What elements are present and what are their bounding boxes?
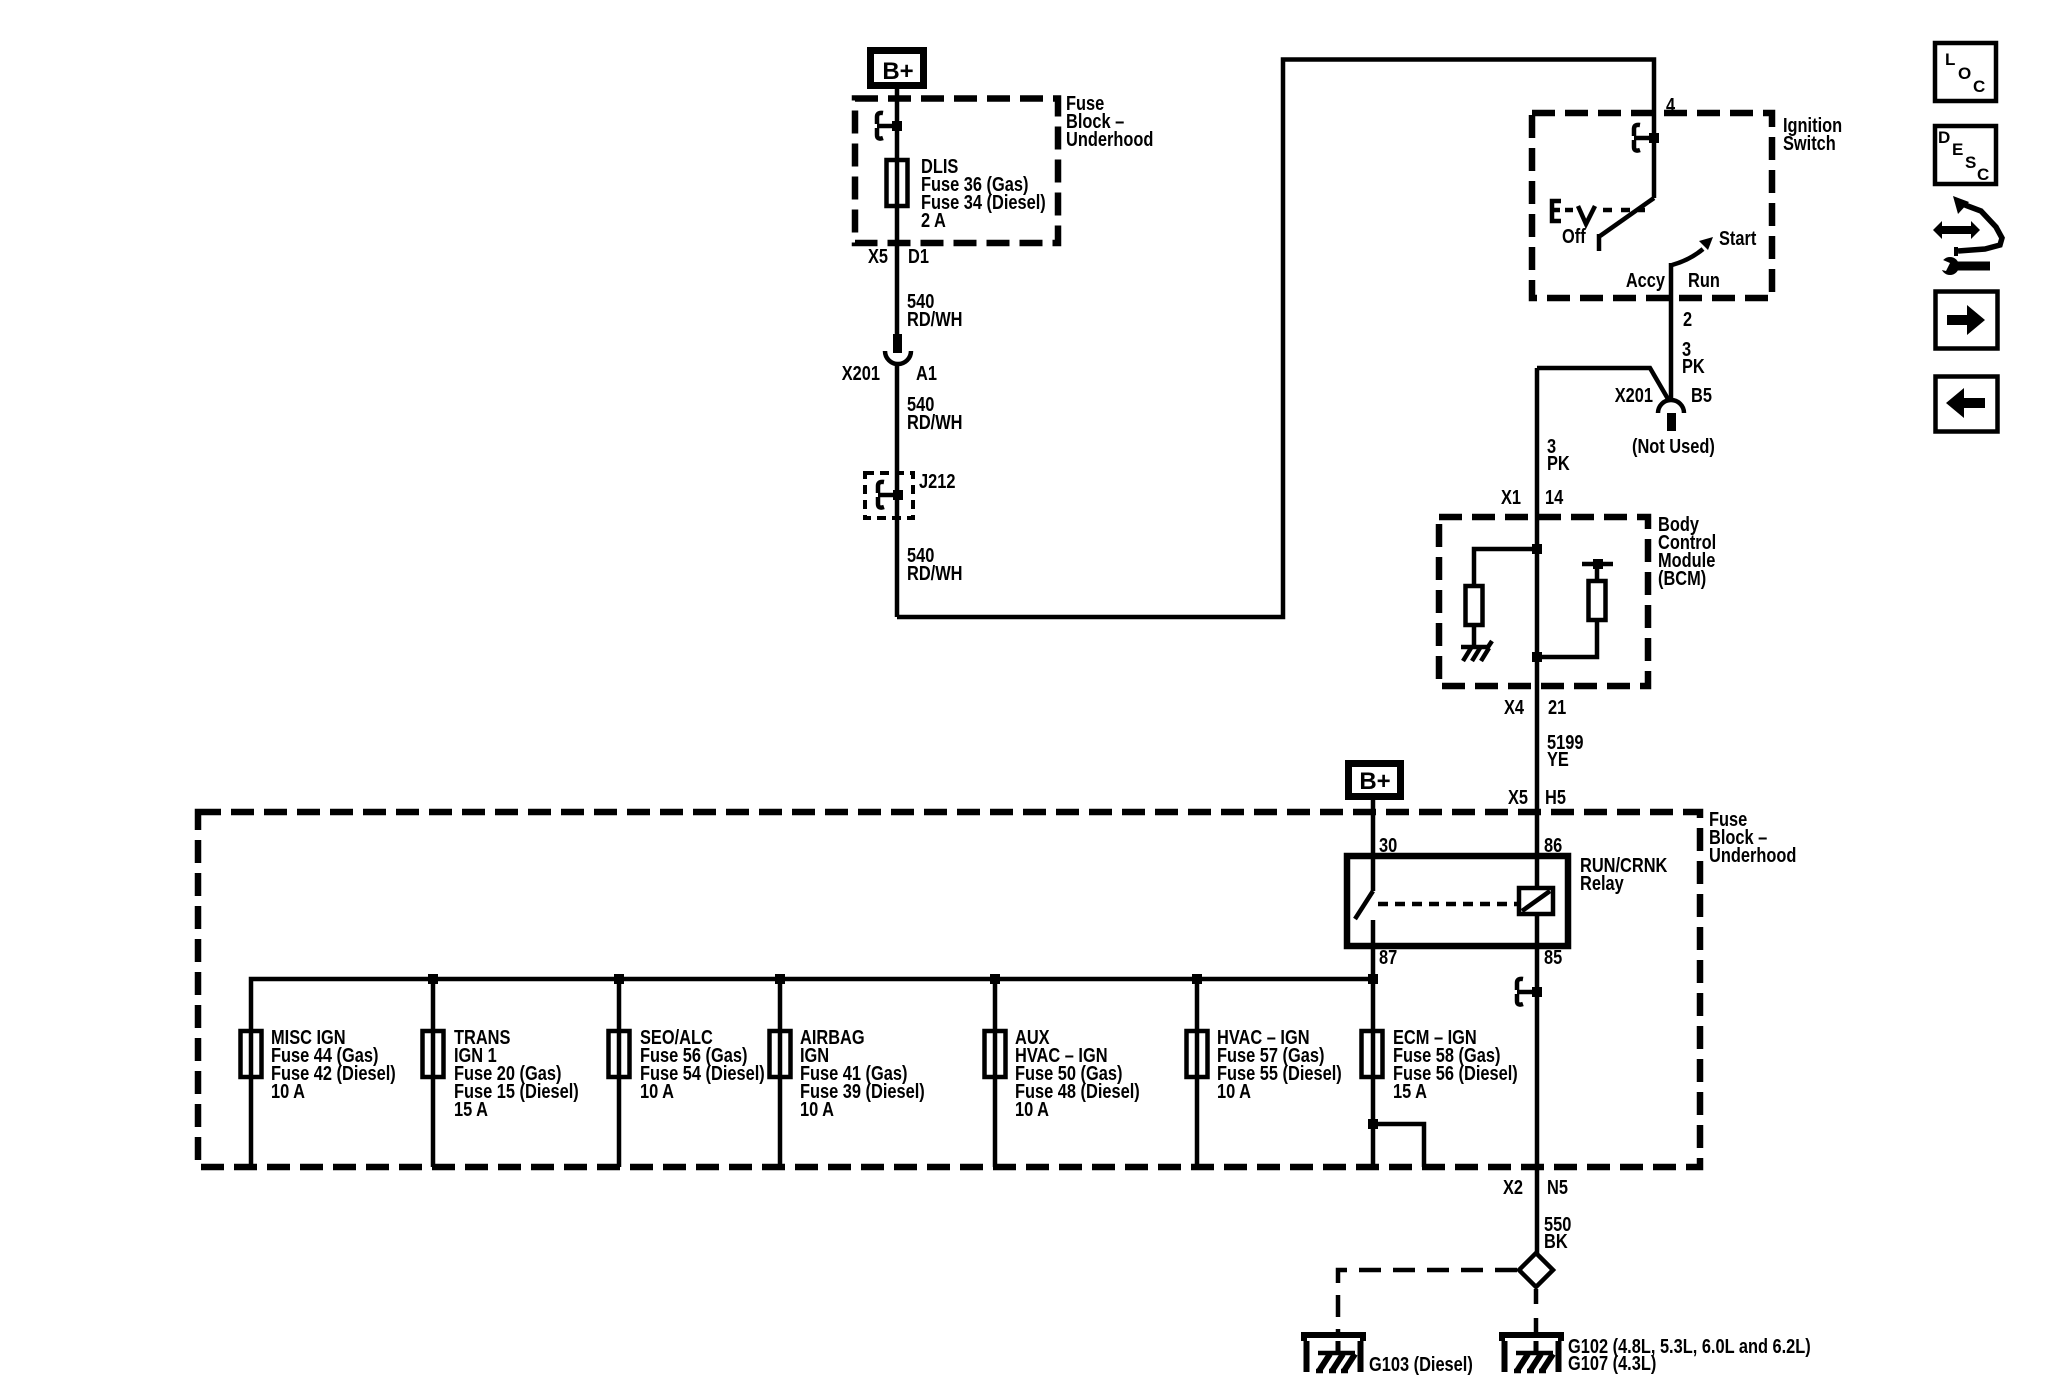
- connector X201 A1: female cup: [885, 351, 911, 364]
- svg-text:RD/WH: RD/WH: [907, 561, 962, 584]
- dashed wire: splice to G103 (diesel): [1338, 1270, 1517, 1334]
- junction at hook / wire: [892, 121, 902, 131]
- wire: branch AIRBAG: [778, 979, 783, 1167]
- junction at ignition hook: [1649, 133, 1659, 143]
- fuse block underhood box 2 (dashed): [198, 812, 1700, 1167]
- svg-text:10 A: 10 A: [800, 1097, 834, 1120]
- fuse HVAC-IGN: [1187, 1031, 1208, 1077]
- junction at ECM loop: [1368, 1119, 1378, 1129]
- svg-text:86: 86: [1544, 833, 1562, 856]
- svg-text:10 A: 10 A: [271, 1079, 305, 1102]
- svg-text:14: 14: [1545, 485, 1564, 508]
- wire: Run contact down to connector X201 B5: [1669, 263, 1674, 401]
- wire: branch SEO/ALC: [617, 979, 622, 1167]
- svg-text:Off: Off: [1562, 224, 1586, 247]
- svg-text:E: E: [1952, 140, 1963, 159]
- fuse AUX HVAC-IGN: [985, 1031, 1006, 1077]
- svg-text:(Not Used): (Not Used): [1632, 434, 1715, 457]
- label: SEO/ALC fuse: [640, 1025, 765, 1102]
- junction dot BCM lower: [1532, 652, 1542, 662]
- svg-text:G103 (Diesel): G103 (Diesel): [1369, 1352, 1473, 1375]
- icon box LOC: [1935, 43, 1996, 101]
- wire label 3 PK (right): [1682, 337, 1705, 377]
- wire: A1 down through J212 to corner: [895, 364, 900, 617]
- svg-text:Relay: Relay: [1580, 871, 1624, 894]
- relay coil box with slash: [1519, 888, 1553, 914]
- junction at J212: [893, 490, 903, 500]
- svg-text:2 A: 2 A: [921, 208, 946, 231]
- svg-text:BK: BK: [1544, 1229, 1568, 1252]
- svg-text:2: 2: [1683, 307, 1692, 330]
- label: AUX HVAC-IGN fuse: [1015, 1025, 1140, 1120]
- wire label 550 BK: [1544, 1212, 1571, 1252]
- fuse ECM-IGN: [1362, 1031, 1383, 1077]
- svg-text:PK: PK: [1547, 451, 1570, 474]
- ignition switch dashed box: [1532, 113, 1772, 298]
- fuse AIRBAG IGN: [770, 1031, 791, 1077]
- internal supply T-bar: [1582, 559, 1613, 581]
- svg-text:L: L: [1945, 50, 1955, 69]
- label: MISC IGN fuse: [271, 1025, 396, 1102]
- wire: BCM internal branch to sensing resistor: [1537, 620, 1597, 657]
- ignition bus (fuse feeds): [251, 979, 1373, 1167]
- svg-text:X1: X1: [1501, 485, 1521, 508]
- svg-text:21: 21: [1548, 695, 1566, 718]
- wire: long loop from corner up and over to ignition switch pin 4: [897, 60, 1654, 618]
- icon box arrow left: [1936, 377, 1998, 432]
- svg-text:87: 87: [1379, 945, 1397, 968]
- key link dash 1: [1565, 208, 1573, 213]
- svg-text:G107 (4.3L): G107 (4.3L): [1568, 1351, 1656, 1374]
- svg-text:30: 30: [1379, 833, 1397, 856]
- wire: B+ to DLIS fuse and down to connector X201 A1: [895, 89, 900, 336]
- wire: BCM internal branch to pull-down resistor: [1474, 549, 1537, 586]
- ignition switch movable blade (Off position): [1599, 198, 1654, 251]
- resistor (BCM sense): [1589, 581, 1606, 620]
- svg-text:RD/WH: RD/WH: [907, 410, 962, 433]
- bus tap hook at ignition pin 4: [1634, 125, 1654, 151]
- key link dashes to blade: [1603, 208, 1645, 213]
- wire: 3 PK down to BCM X1-14 and on to relay 86: [1535, 368, 1540, 888]
- fuse MISC IGN: [241, 1031, 262, 1077]
- junction dot BCM upper: [1532, 544, 1542, 554]
- svg-text:J212: J212: [919, 469, 955, 492]
- wire label 3 PK (left): [1547, 434, 1570, 474]
- label: Fuse Block - Underhood (lower right): [1709, 807, 1796, 866]
- svg-text:X201: X201: [1615, 383, 1653, 406]
- svg-text:Underhood: Underhood: [1709, 843, 1796, 866]
- svg-text:C: C: [1973, 77, 1985, 96]
- bus tap hook inside fuse block 1: [877, 113, 897, 139]
- svg-text:RD/WH: RD/WH: [907, 307, 962, 330]
- relay switch blade (pin 30 to 87, open): [1355, 891, 1373, 946]
- icon box DESC: [1935, 126, 1996, 184]
- svg-text:S: S: [1965, 153, 1976, 172]
- svg-text:10 A: 10 A: [640, 1079, 674, 1102]
- wire: branch HVAC: [1195, 979, 1200, 1167]
- svg-text:H5: H5: [1545, 785, 1566, 808]
- fuse block underhood box 1 (dashed): [855, 99, 1058, 244]
- splice J212 hook: [878, 482, 898, 508]
- svg-text:X2: X2: [1503, 1175, 1523, 1198]
- battery feed B+ symbol (top): [871, 51, 924, 86]
- svg-text:PK: PK: [1682, 354, 1705, 377]
- splice J212 dashed box: [865, 473, 913, 518]
- relay actuating dashed link: [1378, 902, 1517, 907]
- ignition key symbol E: [1552, 201, 1561, 221]
- wire: resistor to internal ground: [1472, 625, 1477, 647]
- ground G103 symbol: [1304, 1335, 1363, 1372]
- svg-text:X5: X5: [868, 244, 888, 267]
- svg-text:A1: A1: [916, 361, 937, 384]
- svg-text:C: C: [1977, 165, 1989, 184]
- dashed wire: splice to G102/G107: [1534, 1289, 1539, 1334]
- label: ECM-IGN fuse: [1393, 1025, 1518, 1102]
- label: AIRBAG IGN fuse: [800, 1025, 925, 1120]
- svg-text:D: D: [1938, 128, 1950, 147]
- label: Ignition Switch: [1783, 113, 1842, 154]
- connector X201 A1: male pin: [893, 334, 902, 353]
- body control module dashed box: [1439, 517, 1648, 686]
- svg-text:Underhood: Underhood: [1066, 127, 1153, 150]
- icon: adjust arrows and wrench: [1933, 196, 2002, 275]
- junction at relay 85 hook: [1532, 987, 1542, 997]
- svg-text:B+: B+: [882, 58, 913, 85]
- svg-text:X5: X5: [1508, 785, 1528, 808]
- fuse DLIS Fuse 36 (Gas) Fuse 34 (Diesel) 2 A: [887, 160, 908, 206]
- svg-text:YE: YE: [1547, 747, 1569, 770]
- svg-text:X4: X4: [1504, 695, 1525, 718]
- svg-text:Run: Run: [1688, 268, 1720, 291]
- label: Body Control Module (BCM): [1658, 512, 1716, 589]
- svg-text:N5: N5: [1547, 1175, 1568, 1198]
- key arrow V: [1578, 206, 1595, 224]
- svg-text:X201: X201: [842, 361, 880, 384]
- fuse SEO/ALC: [609, 1031, 630, 1077]
- wire: ECM fuse output with loop to X2: [1373, 1124, 1424, 1167]
- svg-text:Switch: Switch: [1783, 131, 1836, 154]
- svg-text:D1: D1: [908, 244, 929, 267]
- svg-text:15 A: 15 A: [1393, 1079, 1427, 1102]
- svg-text:Accy: Accy: [1626, 268, 1666, 291]
- label: TRANS IGN 1 fuse: [454, 1025, 579, 1120]
- wire: relay 87 output down to ECM fuse: [1371, 946, 1376, 1167]
- label: Fuse Block - Underhood (top): [1066, 91, 1153, 150]
- connector X201 B5: female cup (not used): [1658, 400, 1684, 413]
- bus tap hook below relay 85: [1517, 979, 1537, 1005]
- wire label 540 RD/WH (2): [907, 392, 962, 433]
- svg-text:15 A: 15 A: [454, 1097, 488, 1120]
- svg-text:B+: B+: [1359, 768, 1390, 795]
- relay RUN/CRNK box: [1347, 856, 1568, 946]
- svg-text:B5: B5: [1691, 383, 1712, 406]
- wire: B+ to relay pin 30: [1371, 800, 1376, 891]
- wire: BCM feed horizontal with diagonal into X201 B5: [1537, 368, 1668, 399]
- wire: branch AUX: [993, 979, 998, 1167]
- start position curved arrow: [1672, 237, 1713, 265]
- junction dots on bus: [428, 974, 1378, 984]
- svg-text:10 A: 10 A: [1217, 1079, 1251, 1102]
- wire label 540 RD/WH (3): [907, 543, 962, 584]
- label: DLIS fuse text: [921, 154, 1046, 231]
- wire: branch TRANS: [431, 979, 436, 1167]
- connector X201 B5: male pin: [1667, 413, 1676, 431]
- ground G102/G107 symbol: [1502, 1335, 1561, 1372]
- wire: relay 85 down through X2 N5 to splice: [1535, 914, 1540, 1253]
- svg-text:(BCM): (BCM): [1658, 566, 1706, 589]
- splice diamond S-point: [1519, 1253, 1553, 1287]
- svg-text:10 A: 10 A: [1015, 1097, 1049, 1120]
- battery feed B+ symbol (relay 30): [1349, 764, 1401, 797]
- label: RUN/CRNK Relay: [1580, 853, 1668, 894]
- label: HVAC-IGN fuse: [1217, 1025, 1342, 1102]
- wire label 540 RD/WH (1): [907, 289, 962, 330]
- icon box arrow right: [1936, 292, 1998, 349]
- wire label 5199 YE: [1547, 730, 1583, 770]
- fuse TRANS IGN 1: [423, 1031, 444, 1077]
- resistor (BCM pull-down): [1466, 586, 1483, 625]
- svg-text:Start: Start: [1719, 226, 1756, 249]
- ground (BCM internal): [1461, 641, 1492, 661]
- svg-text:O: O: [1958, 64, 1971, 83]
- svg-text:85: 85: [1544, 945, 1562, 968]
